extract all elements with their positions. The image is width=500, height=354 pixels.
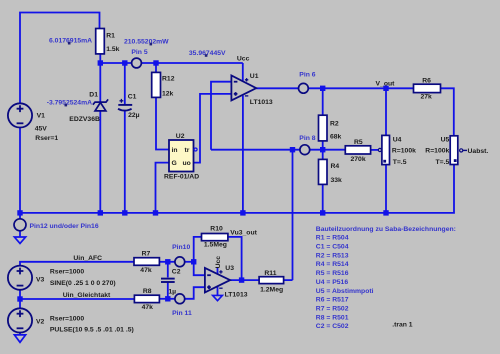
wire [19, 213, 21, 219]
svg-text:47k: 47k [140, 267, 152, 274]
svg-text:tr: tr [185, 147, 190, 154]
op-amp U3 [205, 268, 230, 293]
wire [141, 62, 242, 64]
node junction out R2 [320, 86, 325, 91]
svg-text:C1 = C504: C1 = C504 [316, 244, 349, 251]
wire [242, 96, 244, 213]
potentiometer U5 tap dot [460, 149, 463, 152]
svg-text:Rser=1000: Rser=1000 [50, 269, 84, 276]
wire [194, 94, 232, 163]
wire [230, 279, 259, 281]
wire [19, 128, 21, 213]
resistor R8 [134, 295, 159, 302]
node junction V_out [383, 86, 388, 91]
node junction rail R1 [98, 60, 103, 65]
node junction bus R4 [320, 210, 325, 215]
resistor R2 [319, 115, 328, 141]
wire [19, 333, 21, 335]
voltage reference U2 [169, 140, 194, 172]
svg-text:1.5Meg: 1.5Meg [204, 242, 227, 249]
potentiometer U5 tap wire [463, 149, 467, 151]
svg-text:R7: R7 [142, 250, 151, 257]
svg-text:Uin_AFC: Uin_AFC [73, 255, 102, 262]
wire [156, 163, 170, 213]
svg-text:R6 = R517: R6 = R517 [316, 297, 349, 304]
wire [385, 165, 387, 213]
potentiometer U5 wiper mark [454, 159, 457, 162]
wire [308, 87, 413, 89]
svg-text:Ucc: Ucc [237, 56, 250, 63]
resistor R10 [202, 234, 228, 241]
svg-text:Pin 6: Pin 6 [299, 72, 315, 79]
node junction pin10 right [191, 259, 196, 264]
resistor R11 [259, 277, 284, 284]
wire [194, 262, 205, 275]
svg-text:R7 = R502: R7 = R502 [316, 306, 349, 313]
svg-text:U4 = P516: U4 = P516 [316, 279, 349, 286]
svg-text:.tran 1: .tran 1 [392, 322, 413, 329]
svg-text:R2: R2 [330, 121, 339, 128]
pin circle Pin 11 [175, 294, 185, 304]
svg-text:R4 = R514: R4 = R514 [316, 261, 349, 268]
svg-text:R1: R1 [106, 33, 115, 40]
ground Pin12 [14, 237, 25, 243]
svg-text:C2 = C502: C2 = C502 [316, 323, 349, 330]
svg-text:R=100k: R=100k [392, 148, 416, 155]
svg-text:LT1013: LT1013 [250, 99, 273, 106]
wire [124, 63, 126, 105]
node junction pin10 C2 [165, 259, 170, 264]
svg-text:R8 = R501: R8 = R501 [316, 314, 349, 321]
capacitor C2 [161, 279, 175, 282]
svg-text:U1: U1 [250, 73, 259, 80]
op-amp U1 [231, 76, 256, 101]
svg-text:6.0176915mA: 6.0176915mA [49, 38, 92, 45]
wire [159, 261, 175, 263]
svg-text:68k: 68k [330, 133, 342, 140]
svg-text:U2: U2 [176, 133, 185, 140]
resistor R4 [319, 159, 328, 184]
node junction bus U4 [383, 210, 388, 215]
svg-text:1µ: 1µ [168, 288, 176, 295]
svg-text:35.967445V: 35.967445V [189, 50, 226, 57]
svg-text:V2: V2 [36, 318, 45, 325]
wire [217, 268, 219, 274]
svg-text:T=.5: T=.5 [393, 159, 407, 166]
wire D1 bottom lead [99, 111, 101, 213]
node junction pin11 C2 [165, 296, 170, 301]
wire [20, 13, 100, 104]
svg-text:G: G [172, 160, 177, 167]
svg-text:PULSE(10 9.5 .5 .01 .01 .5): PULSE(10 9.5 .5 .01 .01 .5) [50, 327, 134, 334]
anchor marker V [205, 54, 208, 57]
anchor marker mA [68, 42, 71, 45]
wire [185, 287, 205, 299]
svg-text:33k: 33k [331, 177, 343, 184]
wire [322, 184, 324, 213]
wire [156, 97, 169, 149]
svg-text:LT1013: LT1013 [225, 291, 248, 298]
resistor R7 [134, 258, 159, 266]
wire [228, 237, 242, 280]
svg-text:R4: R4 [331, 163, 340, 170]
svg-text:V3: V3 [36, 277, 45, 284]
voltage source V3 [8, 266, 32, 290]
svg-text:R11: R11 [264, 270, 276, 277]
wire [20, 165, 454, 213]
node junction bus U2G [153, 210, 158, 215]
wire [292, 150, 294, 280]
pin circle Pin 8 [300, 145, 310, 155]
node junction rail C1 [122, 60, 127, 65]
wire [185, 261, 194, 263]
svg-text:R1 = R504: R1 = R504 [316, 235, 349, 242]
svg-text:T=.5: T=.5 [436, 159, 450, 166]
wire [284, 279, 293, 281]
node junction V3 V2 [17, 296, 22, 301]
node junction rail R12 [153, 60, 158, 65]
svg-text:U3: U3 [225, 265, 234, 272]
svg-text:27k: 27k [421, 94, 433, 101]
anchor marker mW [150, 43, 153, 46]
svg-text:in: in [172, 147, 178, 154]
svg-text:Bauteilzuordnung zu Saba-Bezei: Bauteilzuordnung zu Saba-Bezeichnungen: [316, 226, 456, 233]
wire [167, 282, 169, 299]
wire [194, 237, 202, 262]
svg-text:R6: R6 [422, 77, 431, 84]
svg-text:Uabst.: Uabst. [468, 148, 489, 155]
potentiometer U4 [382, 135, 390, 164]
svg-text:Rser=1: Rser=1 [35, 135, 58, 142]
svg-text:Pin 5: Pin 5 [131, 49, 147, 56]
svg-text:R2 = R513: R2 = R513 [316, 252, 349, 259]
svg-text:Ucc: Ucc [215, 256, 222, 269]
svg-text:Rser=1000: Rser=1000 [50, 315, 84, 322]
svg-text:22µ: 22µ [128, 112, 140, 119]
svg-text:1.5k: 1.5k [106, 46, 119, 53]
pin circle Pin12 [14, 219, 26, 231]
pin circle Pin10 [175, 257, 185, 267]
potentiometer U4 tap dot [378, 148, 381, 151]
zener diode D1 [93, 99, 108, 111]
svg-text:Pin10: Pin10 [172, 244, 190, 251]
svg-text:R12: R12 [162, 76, 175, 83]
wire [124, 111, 126, 213]
svg-text:Pin 8: Pin 8 [299, 135, 315, 142]
pin circle Pin 5 [132, 58, 142, 68]
svg-text:EDZV36B: EDZV36B [69, 116, 100, 123]
svg-text:REF-01/AD: REF-01/AD [164, 174, 199, 181]
svg-text:1.2Meg: 1.2Meg [260, 287, 283, 294]
node junction bus U1 [240, 210, 245, 215]
node junction pin8 R11 [290, 147, 295, 152]
resistor R1 [96, 29, 105, 54]
wire [100, 62, 131, 64]
node junction bus left [17, 210, 22, 215]
svg-text:D1: D1 [89, 91, 98, 98]
wire [19, 290, 21, 309]
svg-text:R10: R10 [210, 225, 223, 232]
svg-text:Pin12 und/oder Pin16: Pin12 und/oder Pin16 [30, 223, 99, 230]
svg-text:uo: uo [183, 160, 191, 167]
wire [322, 141, 324, 160]
svg-text:C2: C2 [172, 269, 181, 276]
svg-text:Pin 11: Pin 11 [172, 310, 192, 317]
wire [217, 287, 219, 296]
wire [242, 63, 244, 81]
svg-text:Uin_Gleichtakt: Uin_Gleichtakt [63, 292, 111, 299]
ground U3 [213, 295, 223, 300]
wire [167, 262, 169, 278]
wire [371, 149, 379, 151]
voltage source V1 [8, 103, 32, 127]
wire [20, 298, 135, 300]
svg-text:12k: 12k [162, 90, 174, 97]
U2 pin tr dot [194, 148, 197, 151]
svg-text:U5: U5 [441, 136, 450, 143]
wire [19, 231, 21, 237]
wire [99, 54, 101, 63]
svg-text:R5: R5 [354, 139, 363, 146]
svg-text:U4: U4 [393, 136, 402, 143]
node junction pin8 R2R4 [320, 147, 325, 152]
svg-text:-3.7952524mA: -3.7952524mA [47, 100, 92, 107]
svg-text:R5 = R516: R5 = R516 [316, 270, 349, 277]
svg-text:47k: 47k [142, 304, 154, 311]
resistor R6 [414, 84, 441, 92]
wire D1 top lead [99, 63, 101, 102]
svg-text:C1: C1 [128, 94, 137, 101]
resistor R12 [152, 72, 161, 97]
wire [159, 298, 175, 300]
wire [310, 149, 346, 151]
svg-text:V1: V1 [37, 113, 46, 120]
potentiometer U4 wiper mark [383, 160, 386, 163]
node junction bus D1 [98, 210, 103, 215]
svg-text:U5 = Abstimmpoti: U5 = Abstimmpoti [316, 288, 374, 295]
svg-text:R=100k: R=100k [425, 148, 449, 155]
wire [20, 262, 134, 266]
wire [385, 88, 387, 135]
voltage source V2 [8, 308, 32, 332]
svg-text:210.55202mW: 210.55202mW [124, 38, 169, 45]
anchor marker -mA [65, 104, 68, 107]
wire [322, 88, 324, 115]
svg-text:Vu3_out: Vu3_out [230, 229, 257, 236]
potentiometer U5 [450, 136, 458, 165]
capacitor C1 [118, 99, 132, 111]
wire [155, 63, 157, 72]
ground V2 [14, 335, 25, 342]
node junction U3 out [239, 277, 244, 282]
wire [211, 82, 231, 150]
wire [256, 87, 298, 89]
svg-text:R8: R8 [143, 288, 152, 295]
wire [441, 88, 454, 136]
svg-text:270k: 270k [351, 156, 366, 163]
svg-text:SINE(0 .25 1 0 0 270): SINE(0 .25 1 0 0 270) [50, 280, 116, 287]
wire [211, 149, 300, 151]
svg-text:V_out: V_out [376, 80, 396, 87]
pin circle Pin 6 [299, 83, 309, 93]
node junction bus C1 [122, 210, 127, 215]
resistor R5 [345, 146, 370, 154]
svg-text:45V: 45V [35, 126, 48, 133]
